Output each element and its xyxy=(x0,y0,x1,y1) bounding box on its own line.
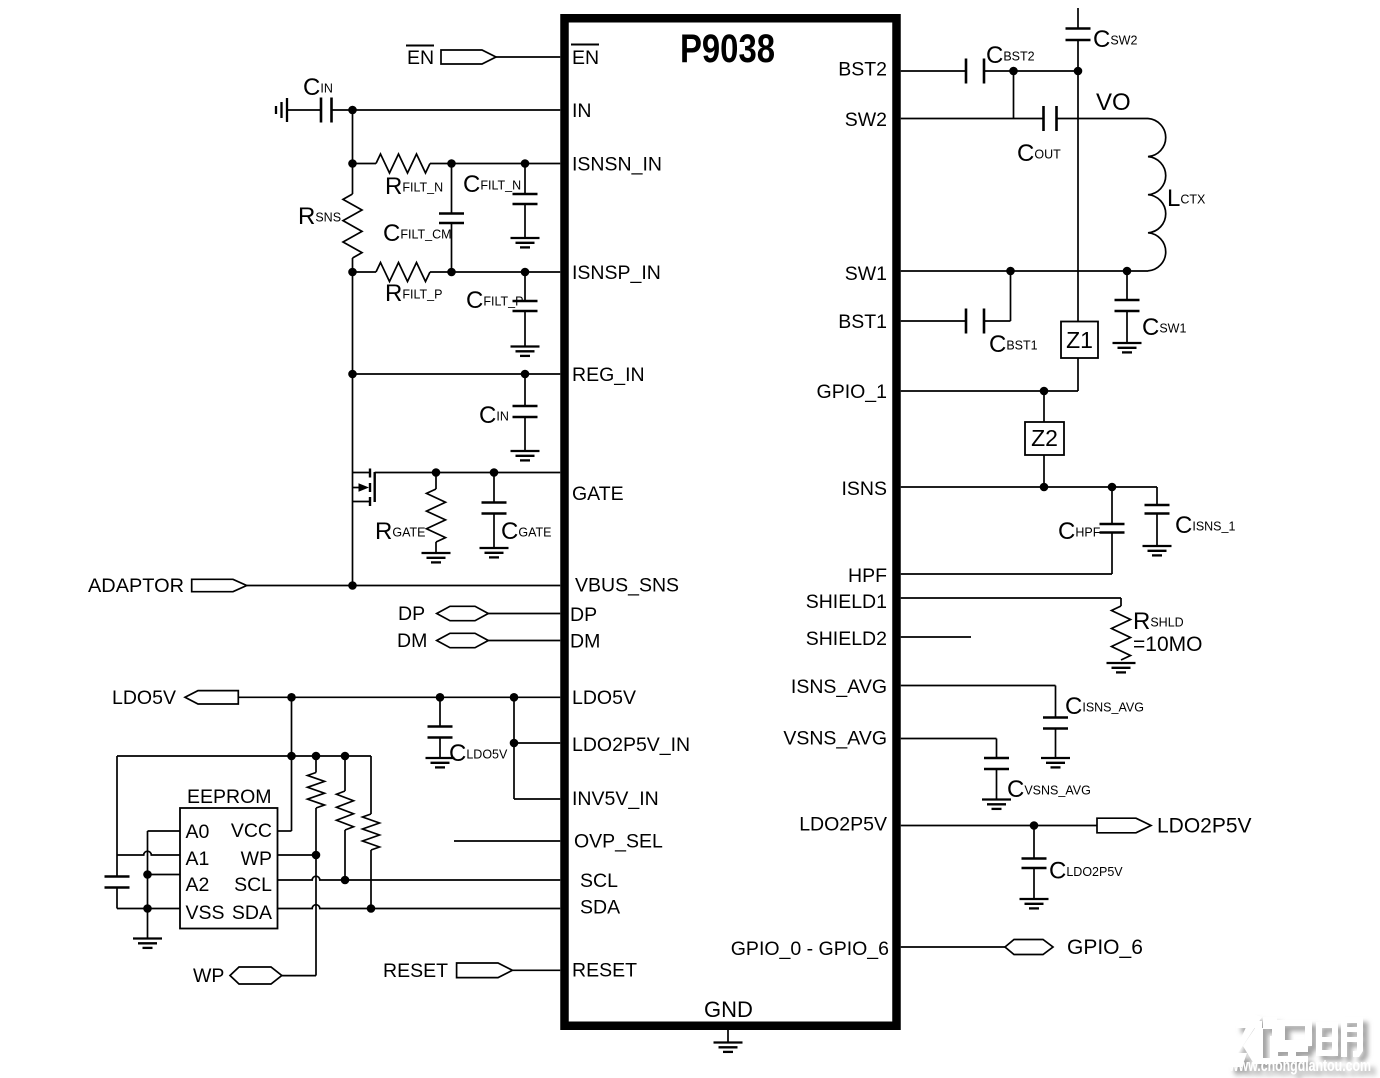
impedance Z1 xyxy=(1061,322,1098,359)
wire pull-up top bus xyxy=(117,755,371,757)
ADAPTOR connector xyxy=(192,579,247,591)
svg-text:GPIO_0 - GPIO_6: GPIO_0 - GPIO_6 xyxy=(731,938,889,960)
label pin SW2 xyxy=(845,109,887,131)
watermark chongdiantou logo xyxy=(1228,1014,1371,1075)
label LDO2P5V (net) xyxy=(1157,815,1252,838)
IC U1 P9038 outline xyxy=(565,18,897,1026)
svg-text:REG_IN: REG_IN xyxy=(572,364,645,386)
wire Z1 to GPIO_1 xyxy=(1044,358,1078,391)
label DP xyxy=(398,603,425,625)
node top bus-R1 xyxy=(312,752,321,761)
wire LDO5V xyxy=(238,696,560,698)
svg-text:SCL: SCL xyxy=(580,870,618,892)
wire ISNSP_IN xyxy=(430,271,560,273)
label pin DP xyxy=(570,604,597,626)
label pin ISNSP_IN xyxy=(572,262,661,284)
ground CFILT_P xyxy=(511,347,540,356)
RESET connector xyxy=(457,963,513,978)
svg-text:SDA: SDA xyxy=(580,897,620,919)
capacitor CSW1 xyxy=(1115,271,1187,343)
wire RESET xyxy=(512,969,560,971)
node rail-REG_IN xyxy=(348,370,357,379)
wire VSNS_AVG xyxy=(901,739,997,759)
svg-text:VSNS_AVG: VSNS_AVG xyxy=(783,728,887,750)
node LDO5V-EEPROM branch xyxy=(287,693,296,702)
label pin SCL xyxy=(234,874,272,896)
svg-text:BST1: BST1 xyxy=(838,311,887,333)
wire A2 xyxy=(148,874,181,876)
capacitor CLDO2P5V xyxy=(1022,826,1124,899)
ground GND (IC) xyxy=(714,1030,743,1052)
label pin LDO2P5V_IN xyxy=(572,734,690,756)
capacitor CLDO5V xyxy=(428,697,508,767)
ground CVSNS_AVG xyxy=(982,800,1011,809)
capacitor CHPF xyxy=(1058,487,1125,574)
label pin OVP_SEL xyxy=(574,831,663,853)
resistor RFILT_N xyxy=(353,154,444,200)
node WP junction xyxy=(312,851,321,860)
node CFILT_N top xyxy=(521,159,530,168)
ground (input C_IN) xyxy=(276,98,287,122)
label pin VSNS_AVG xyxy=(783,728,887,750)
node SDA-R3 xyxy=(367,904,376,913)
node BST2-CSW2 xyxy=(1074,67,1083,76)
svg-text:HPF: HPF xyxy=(848,565,887,587)
svg-text:LDO2P5V: LDO2P5V xyxy=(799,814,887,836)
wire ISNSN_IN xyxy=(430,163,560,165)
svg-text:GND: GND xyxy=(704,997,753,1022)
capacitor CISNS_AVG xyxy=(1043,693,1144,758)
label pin GND xyxy=(704,997,753,1022)
label pin BST2 xyxy=(838,59,887,81)
node LDO2P5V-cap xyxy=(1030,821,1039,830)
wire input rail (vertical) xyxy=(352,110,354,586)
label pin LDO2P5V xyxy=(799,814,887,836)
wire SCL xyxy=(278,876,561,880)
inductor LCTX xyxy=(1148,119,1206,271)
svg-text:Z1: Z1 xyxy=(1066,327,1093,353)
svg-text:Z2: Z2 xyxy=(1031,425,1058,451)
wire BST1 to SW1 xyxy=(984,271,1011,321)
capacitor CGATE xyxy=(482,473,552,548)
capacitor CIN (REG_IN) xyxy=(479,374,538,451)
wire SW2 xyxy=(901,118,1044,120)
label pin A1 xyxy=(186,848,210,870)
node SW1-CSW1 xyxy=(1123,267,1132,276)
svg-text:SDA: SDA xyxy=(232,902,272,924)
wire DP xyxy=(488,613,560,615)
resistor R2 (SCL pull-up) xyxy=(337,756,354,880)
capacitor CFILT_N xyxy=(463,164,538,238)
wire BST2 drop to SW2 xyxy=(1013,71,1015,119)
wire SW1 xyxy=(901,270,1148,272)
resistor RGATE xyxy=(375,473,446,553)
label pin GPIO_0 - GPIO_6 xyxy=(731,938,889,960)
svg-text:=10MO: =10MO xyxy=(1133,633,1202,656)
svg-text:WP: WP xyxy=(193,965,224,987)
svg-text:VCC: VCC xyxy=(231,820,272,842)
EEPROM U2 box xyxy=(180,808,278,929)
wire OVP_SEL xyxy=(454,840,560,842)
label ADAPTOR xyxy=(88,575,184,597)
wire GPIO_1 xyxy=(901,390,1044,392)
svg-text:P9038: P9038 xyxy=(680,27,775,71)
svg-text:SW1: SW1 xyxy=(845,263,887,285)
node CFILT_P top xyxy=(521,268,530,277)
label pin LDO5V xyxy=(572,687,636,709)
svg-text:ISNS_AVG: ISNS_AVG xyxy=(791,676,887,698)
svg-text:ISNSN_IN: ISNSN_IN xyxy=(572,154,662,176)
ground CGATE xyxy=(480,548,509,557)
label pin A2 xyxy=(186,874,210,896)
label WP (net) xyxy=(193,965,224,987)
label pin INV5V_IN xyxy=(572,788,659,810)
svg-text:SCL: SCL xyxy=(234,874,272,896)
label pin VBUS_SNS xyxy=(575,575,679,597)
transistor Q1 (pass PMOS) xyxy=(353,469,375,507)
capacitor CFILT_CM xyxy=(383,164,464,273)
label pin VSS xyxy=(186,902,225,924)
label pin SDA xyxy=(232,902,272,924)
ground RGATE xyxy=(422,553,451,562)
svg-text:ADAPTOR: ADAPTOR xyxy=(88,575,184,597)
capacitor COUT xyxy=(1017,106,1061,167)
label pin RESET xyxy=(572,960,637,982)
wire ISNS_AVG xyxy=(901,686,1056,718)
svg-text:A1: A1 xyxy=(186,848,210,870)
svg-text:IN: IN xyxy=(572,100,592,122)
node IN/rail junction xyxy=(348,106,357,115)
node CLDO5V top xyxy=(436,693,445,702)
ground CLDO5V xyxy=(426,758,455,767)
node CFILT_CM top xyxy=(447,159,456,168)
resistor R3 (SDA pull-up) xyxy=(363,756,380,909)
svg-text:DP: DP xyxy=(570,604,597,626)
wire SHIELD2 xyxy=(901,636,971,638)
wire BST2 xyxy=(901,70,966,72)
node top bus-R2 xyxy=(341,752,350,761)
label pin IN xyxy=(572,100,592,122)
wire BST2 to VO column xyxy=(984,70,1078,72)
svg-text:DP: DP xyxy=(398,603,425,625)
node BST2-SW2 drop xyxy=(1009,67,1018,76)
ground CFILT_N xyxy=(511,238,540,247)
svg-text:INV5V_IN: INV5V_IN xyxy=(572,788,659,810)
label pin SDA xyxy=(580,897,620,919)
label pin DM xyxy=(570,631,600,653)
wire VSS xyxy=(117,908,180,910)
svg-text:ISNS: ISNS xyxy=(841,478,887,500)
capacitor CVSNS_AVG xyxy=(984,758,1091,803)
svg-text:VO: VO xyxy=(1096,89,1131,116)
node SCL-R2 xyxy=(341,876,350,885)
svg-text:LDO2P5V: LDO2P5V xyxy=(1157,815,1252,838)
ground CISNS_AVG xyxy=(1041,758,1070,767)
node ISNS-CHPF xyxy=(1108,483,1117,492)
LDO2P5V output connector xyxy=(1097,818,1151,833)
wire WP vertical xyxy=(282,855,316,976)
node RGATE top xyxy=(432,468,441,477)
resistor R1 (WP pull-up) xyxy=(308,756,325,855)
svg-text:A0: A0 xyxy=(186,821,210,843)
svg-text:OVP_SEL: OVP_SEL xyxy=(574,831,663,853)
label GPIO_6 (net) xyxy=(1067,936,1143,959)
wire IN xyxy=(287,109,560,111)
wire LDO2P5V xyxy=(901,825,1097,827)
wire EN xyxy=(496,56,560,58)
capacitor CBST1 xyxy=(966,309,1038,359)
svg-text:SHIELD2: SHIELD2 xyxy=(806,628,887,650)
label pin A0 xyxy=(186,821,210,843)
GPIO_6 connector xyxy=(1005,940,1053,955)
svg-text:LDO5V: LDO5V xyxy=(572,687,636,709)
label pin SCL xyxy=(580,870,618,892)
svg-text:EEPROM: EEPROM xyxy=(187,786,272,808)
label RESET (net) xyxy=(383,960,448,982)
wire SDA xyxy=(278,905,561,909)
wire CSW2 to BST2 node xyxy=(1077,40,1079,71)
wire WP (EEPROM) xyxy=(278,854,317,856)
DM connector xyxy=(437,633,489,647)
label P9038 xyxy=(680,27,775,71)
node A0 line-A2 xyxy=(143,870,152,879)
label pin WP xyxy=(241,848,272,870)
wire A1 xyxy=(117,756,180,855)
capacitor CIN (input) xyxy=(303,74,333,123)
svg-text:ISNSP_IN: ISNSP_IN xyxy=(572,262,661,284)
label pin SHIELD1 xyxy=(806,591,887,613)
svg-text:LDO2P5V_IN: LDO2P5V_IN xyxy=(572,734,690,756)
node LDO2P5V_IN junction xyxy=(510,739,519,748)
svg-text:DM: DM xyxy=(397,630,427,652)
label pin ISNSN_IN xyxy=(572,154,662,176)
svg-text:WP: WP xyxy=(241,848,272,870)
label pin ISNS_AVG xyxy=(791,676,887,698)
wire BST1 xyxy=(901,320,966,322)
wire VO xyxy=(1057,118,1149,120)
wire HPF xyxy=(901,573,1112,575)
svg-text:www.chongdiantou.com: www.chongdiantou.com xyxy=(1228,1057,1371,1075)
capacitor CISNS_1 xyxy=(1145,487,1236,546)
DP connector xyxy=(437,606,489,620)
ground CLDO2P5V xyxy=(1020,899,1049,908)
svg-text:EN: EN xyxy=(572,47,599,69)
WP connector xyxy=(230,967,282,984)
svg-text:RESET: RESET xyxy=(572,960,637,982)
capacitor CSW2 xyxy=(1066,8,1138,53)
resistor RSHLD xyxy=(1112,606,1203,660)
node A0 line-VSS xyxy=(143,904,152,913)
wire VBUS_SNS xyxy=(247,585,561,587)
label pin GATE xyxy=(572,483,624,505)
svg-text:GPIO_1: GPIO_1 xyxy=(817,381,887,403)
wire DM xyxy=(488,640,560,642)
EN input connector xyxy=(441,50,496,64)
svg-text:VSS: VSS xyxy=(186,902,225,924)
wire LDO5V down to EEPROM VCC xyxy=(278,697,292,831)
label EEPROM xyxy=(187,786,272,808)
node LDO2P5V_IN branch xyxy=(510,693,519,702)
wire ISNS xyxy=(901,486,1157,488)
svg-text:LDO5V: LDO5V xyxy=(112,687,176,709)
label pin VCC xyxy=(231,820,272,842)
label pin SW1 xyxy=(845,263,887,285)
resistor RFILT_P xyxy=(353,263,443,308)
node rail-VBUS_SNS xyxy=(348,581,357,590)
svg-text:RESET: RESET xyxy=(383,960,448,982)
label pin HPF xyxy=(848,565,887,587)
label pin GPIO_1 xyxy=(817,381,887,403)
capacitor CFILT_P xyxy=(466,272,538,346)
wire GATE xyxy=(375,472,561,474)
wire GPIO_0 - GPIO_6 xyxy=(901,946,1005,948)
capacitor CBST2 xyxy=(966,42,1035,84)
LDO5V output connector xyxy=(185,691,238,704)
node CFILT_CM bottom xyxy=(447,268,456,277)
wire LDO2P5V_IN xyxy=(514,697,560,799)
svg-text:A2: A2 xyxy=(186,874,210,896)
svg-text:SHIELD1: SHIELD1 xyxy=(806,591,887,613)
impedance Z2 xyxy=(1025,391,1064,487)
label LDO5V (net) xyxy=(112,687,176,709)
svg-text:EN: EN xyxy=(407,47,434,69)
node rail-ISNSN xyxy=(348,159,357,168)
label pin BST1 xyxy=(838,311,887,333)
node SW1-BST1 xyxy=(1006,267,1015,276)
node ISNS-Z2 xyxy=(1040,483,1049,492)
resistor RSNS xyxy=(298,194,362,258)
label DM xyxy=(397,630,427,652)
label pin REG_IN xyxy=(572,364,645,386)
ground RSHLD xyxy=(1107,663,1136,672)
svg-text:SW2: SW2 xyxy=(845,109,887,131)
node CIN2 top xyxy=(521,370,530,379)
wire INV5V_IN xyxy=(514,798,560,800)
ground CIN (REG_IN) xyxy=(511,451,540,460)
ground EEPROM xyxy=(133,939,162,948)
svg-text:BST2: BST2 xyxy=(838,59,887,81)
label pin EN (with overline) xyxy=(571,45,599,70)
wire SHIELD1 xyxy=(901,598,1121,606)
node top bus-VCC line xyxy=(287,752,296,761)
svg-text:DM: DM xyxy=(570,631,600,653)
ground CISNS_1 xyxy=(1143,546,1172,555)
label VO (net) xyxy=(1096,89,1131,116)
wire REG_IN xyxy=(353,373,561,375)
label pin SHIELD2 xyxy=(806,628,887,650)
svg-text:GATE: GATE xyxy=(572,483,624,505)
ground CSW1 xyxy=(1113,343,1142,352)
node rail-ISNSP xyxy=(348,268,357,277)
wire VO column to Z1 xyxy=(1077,71,1079,322)
label EN (input, with overline) xyxy=(406,46,434,70)
wire A0 xyxy=(148,831,181,938)
capacitor C EEPROM bypass xyxy=(105,855,130,909)
svg-text:GPIO_6: GPIO_6 xyxy=(1067,936,1143,959)
node GPIO_1-Z2 xyxy=(1040,387,1049,396)
svg-text:VBUS_SNS: VBUS_SNS xyxy=(575,575,679,597)
label pin ISNS xyxy=(841,478,887,500)
node CGATE top xyxy=(490,468,499,477)
